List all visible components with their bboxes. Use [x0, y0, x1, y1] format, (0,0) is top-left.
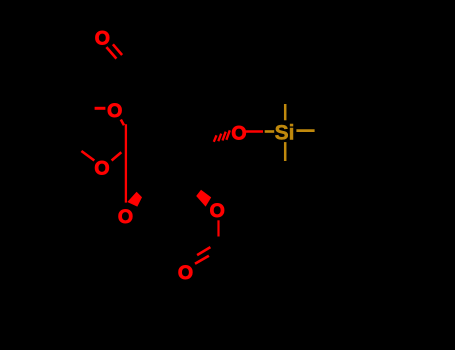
hash 4	[226, 130, 229, 140]
long vertical C-O ring bond	[125, 124, 127, 202]
hash 3	[223, 132, 226, 141]
svg-text:O: O	[178, 262, 193, 284]
svg-text:O: O	[118, 206, 133, 228]
tick from upper OMe O to acetal carbon	[121, 120, 124, 126]
O-Si bond red half	[246, 130, 263, 133]
wire: C=O line 2	[195, 256, 209, 264]
methyl stub of lower OMe	[81, 151, 94, 161]
wire: C=O line 2	[113, 44, 122, 55]
ketone C=O double bond (red halves near O)	[106, 44, 122, 58]
Si methyl bond down	[284, 142, 287, 161]
svg-text:O: O	[231, 123, 246, 145]
Si methyl bond up	[284, 104, 287, 120]
svg-text:O: O	[94, 158, 109, 180]
hash 1	[214, 135, 217, 142]
svg-text:Si: Si	[275, 121, 295, 144]
hashed wedge to silyl O	[214, 130, 230, 142]
tick from lower OMe O to acetal carbon	[112, 152, 122, 160]
wire: C=O line 1	[106, 47, 116, 59]
svg-text:O: O	[107, 100, 122, 122]
ester C=O double bond (red halves)	[195, 247, 210, 264]
methyl stub of upper OMe	[95, 107, 106, 110]
ester O-C bond	[217, 220, 219, 236]
Si bond right	[296, 129, 314, 132]
hash 2	[218, 134, 221, 142]
wire: C=O line 1	[197, 247, 210, 255]
O-Si bond golden half	[265, 130, 275, 133]
bold wedge into ring O (bottom-left)	[127, 192, 142, 207]
bold wedge into ester O	[196, 190, 211, 207]
svg-text:O: O	[95, 28, 110, 50]
svg-text:O: O	[210, 200, 225, 222]
